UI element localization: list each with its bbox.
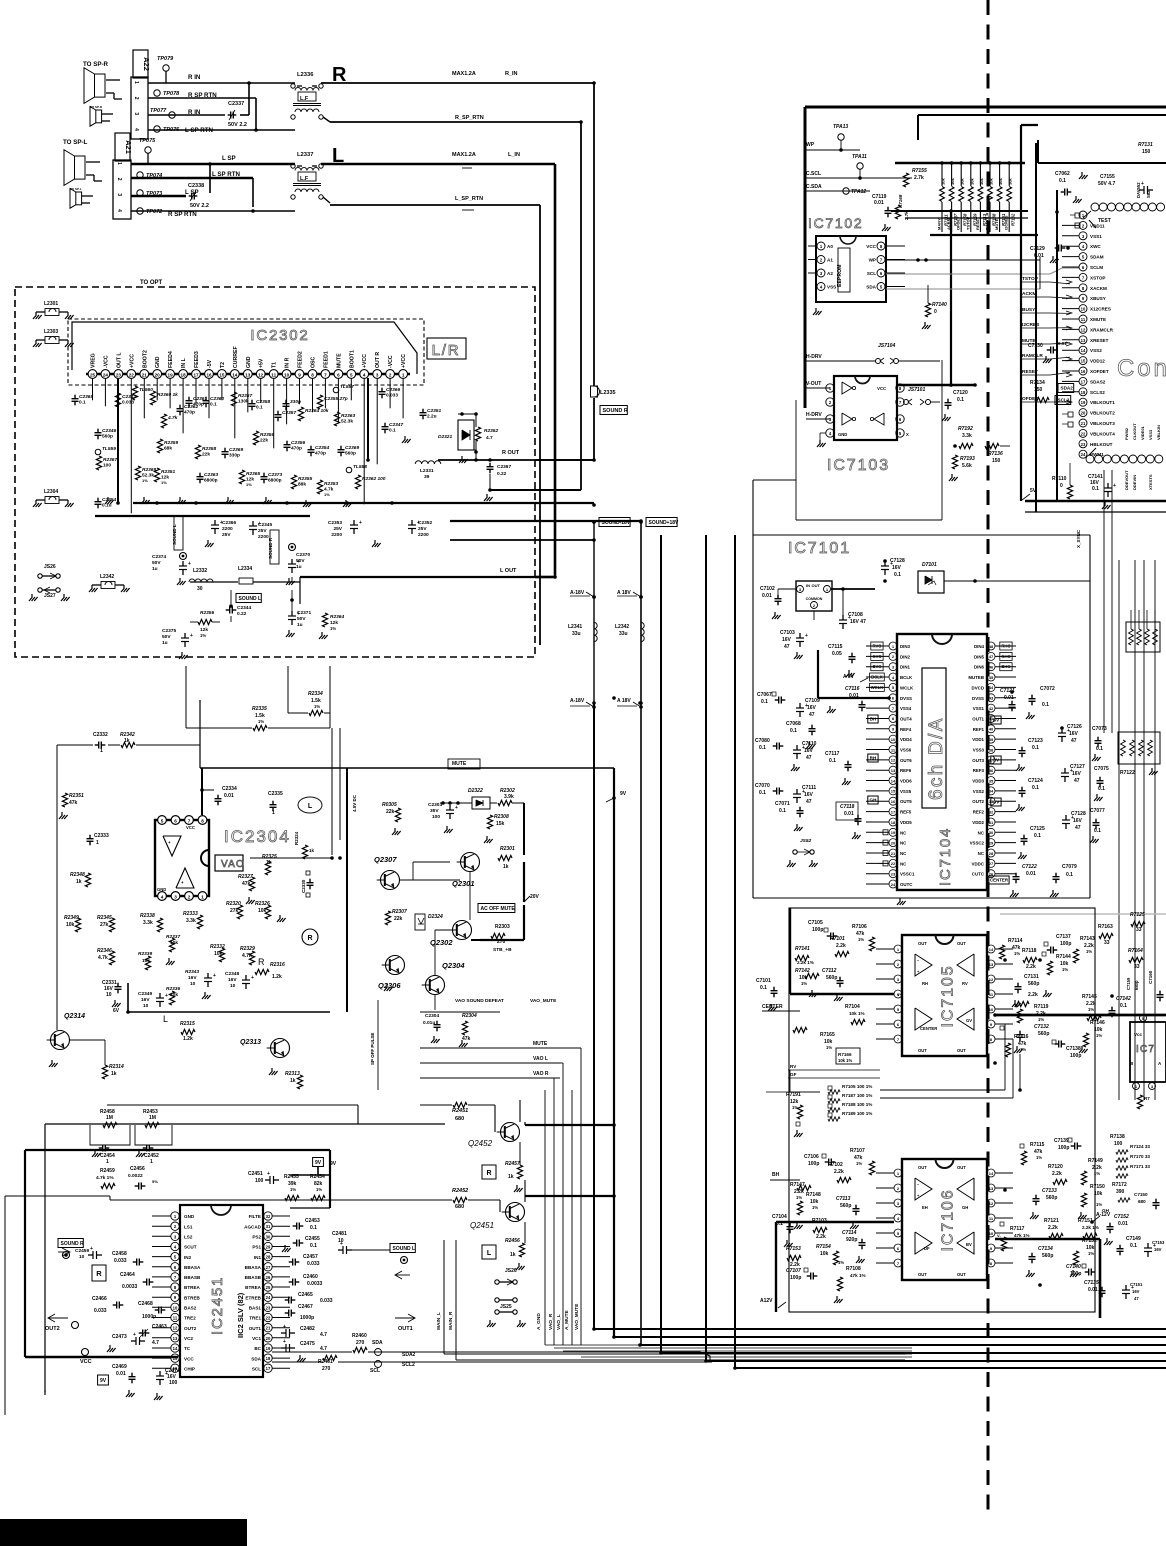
svg-text:12: 12: [1081, 327, 1086, 332]
svg-text:I2CRES: I2CRES: [1022, 322, 1040, 328]
wire left edge: [5, 1196, 110, 1415]
svg-text:BBASB: BBASB: [184, 1275, 201, 1280]
svg-text:150: 150: [1142, 149, 1151, 155]
svg-text:ETREB: ETREB: [245, 1295, 261, 1300]
resistor R7163: [1098, 924, 1113, 946]
svg-text:GND: GND: [184, 1214, 195, 1219]
svg-text:R2353: R2353: [324, 481, 338, 487]
svg-text:R2304: R2304: [462, 1013, 477, 1019]
connector A21: [113, 133, 133, 219]
electrolytic C2353: [328, 520, 381, 547]
wire rails right top: [1025, 501, 1166, 512]
svg-text:OSC: OSC: [311, 357, 317, 368]
svg-text:OUT6: OUT6: [900, 758, 912, 763]
svg-text:30: 30: [266, 1234, 271, 1239]
capacitor C2463: [139, 1324, 167, 1337]
svg-text:100p: 100p: [1070, 1271, 1081, 1277]
capacitor C7068: [786, 721, 816, 749]
svg-text:560p: 560p: [345, 451, 356, 457]
svg-text:C2348: C2348: [225, 971, 239, 977]
wire bold vert A: [1021, 125, 1038, 501]
svg-text:DF: DF: [924, 1246, 930, 1251]
svg-text:SOUND L: SOUND L: [393, 1246, 416, 1252]
svg-text:0.01: 0.01: [849, 693, 859, 699]
svg-text:43: 43: [989, 696, 994, 701]
svg-text:I2CRES: I2CRES: [1004, 215, 1009, 230]
resistor R2352: [474, 414, 498, 462]
svg-text:26: 26: [266, 1275, 271, 1280]
svg-text:SOUND+18V: SOUND+18V: [649, 520, 680, 526]
ground g4: [225, 497, 234, 504]
svg-text:0.1: 0.1: [760, 985, 767, 991]
resistor R7143: [1073, 936, 1095, 963]
svg-text:9: 9: [298, 372, 301, 377]
svg-text:21: 21: [891, 851, 896, 856]
svg-text:IIC2 SLV (82): IIC2 SLV (82): [236, 1292, 245, 1338]
svg-text:L2331: L2331: [420, 468, 434, 474]
node SOUND+18V: [639, 518, 679, 527]
electrolytic C2345: [249, 521, 272, 540]
svg-text:0.1: 0.1: [79, 400, 86, 406]
wire V+ feed IC7105: [790, 908, 903, 997]
svg-text:47: 47: [1071, 738, 1077, 744]
svg-text:1%: 1%: [1086, 949, 1092, 954]
svg-text:C7073: C7073: [1092, 726, 1107, 732]
svg-text:MUTEB: MUTEB: [968, 675, 984, 680]
label C.SDA: [806, 184, 870, 191]
svg-text:C2355 27p: C2355 27p: [324, 396, 348, 402]
svg-text:4.7k 1%: 4.7k 1%: [96, 1175, 114, 1181]
svg-text:1k: 1k: [76, 879, 82, 885]
resistor R7103: [812, 1218, 827, 1240]
svg-text:21: 21: [1081, 421, 1086, 426]
svg-text:C7117: C7117: [825, 751, 840, 757]
capacitor C2303: [428, 802, 458, 833]
svg-text:TRE1: TRE1: [249, 1316, 261, 1321]
svg-text:0.1: 0.1: [1098, 786, 1105, 792]
svg-text:VSS2: VSS2: [973, 789, 985, 794]
label H-DRV: [806, 354, 876, 361]
svg-text:C2457: C2457: [303, 1254, 318, 1260]
svg-text:0.1: 0.1: [894, 572, 901, 578]
svg-text:6: 6: [337, 372, 340, 377]
svg-text:R7115: R7115: [1030, 1142, 1045, 1148]
svg-text:OUT: OUT: [918, 1048, 927, 1053]
svg-text:XOFDET: XOFDET: [1090, 369, 1109, 374]
svg-text:560p: 560p: [840, 1203, 851, 1209]
svg-text:BTREB: BTREB: [184, 1295, 201, 1300]
svg-text:C.SCL: C.SCL: [806, 171, 821, 177]
svg-text:22: 22: [1081, 431, 1086, 436]
svg-text:15k: 15k: [496, 821, 505, 827]
wire ic2304 top net: [57, 745, 200, 1030]
svg-text:DIN6: DIN6: [974, 665, 985, 670]
ground g9: [459, 456, 468, 463]
svg-text:0.1: 0.1: [759, 790, 766, 796]
svg-text:680: 680: [455, 1116, 464, 1122]
vertical label MAIN_L: [436, 1312, 442, 1330]
label L SP 2: [185, 189, 199, 196]
svg-text:+: +: [297, 559, 300, 565]
jumper JS26 b: [495, 1268, 517, 1285]
svg-text:R IN: R IN: [188, 74, 201, 81]
svg-text:VBLKOUT3: VBLKOUT3: [1090, 421, 1115, 426]
svg-text:0.033: 0.033: [122, 400, 134, 406]
svg-text:0.01: 0.01: [1026, 871, 1036, 877]
capacitor C2347: [382, 422, 404, 434]
capacitor C7155c: [1098, 174, 1153, 194]
ground g6: [303, 500, 312, 507]
svg-text:Q2306: Q2306: [378, 981, 401, 990]
capacitor C2358: [249, 399, 271, 411]
inductor L2341: [568, 622, 597, 641]
svg-text:C7067: C7067: [757, 692, 772, 698]
svg-text:MUTE: MUTE: [336, 353, 342, 368]
transistor Q2313: [240, 1039, 290, 1076]
svg-text:10k: 10k: [1008, 178, 1013, 185]
svg-text:NC: NC: [978, 830, 985, 835]
svg-text:14: 14: [891, 778, 896, 783]
wire 9v drop: [290, 1167, 330, 1175]
wire q2304 down: [420, 995, 500, 1012]
svg-text:18: 18: [891, 820, 896, 825]
svg-text:2.2k 1%: 2.2k 1%: [1082, 1225, 1099, 1230]
resistor R2351: [154, 468, 175, 485]
svg-text:SOUND R: SOUND R: [603, 408, 628, 414]
svg-text:1k: 1k: [309, 848, 315, 853]
svg-text:8: 8: [311, 372, 314, 377]
resistor R2453: [135, 1109, 172, 1145]
op-amp IC7104: [879, 634, 995, 890]
svg-text:39: 39: [989, 737, 994, 742]
svg-text:470p: 470p: [291, 446, 302, 452]
capacitor C7120: [942, 390, 968, 421]
capacitor C7123: [1016, 738, 1043, 771]
svg-text:9V: 9V: [330, 1161, 337, 1167]
svg-text:1%: 1%: [258, 719, 264, 724]
capacitor C7073: [1092, 726, 1107, 761]
svg-text:BCLK: BCLK: [871, 675, 883, 680]
svg-text:40: 40: [989, 727, 994, 732]
resistor R2315: [180, 1021, 195, 1042]
resistor R2301: [498, 846, 515, 870]
wire main vert: [444, 1240, 905, 1360]
wires IC7104 stubs: [866, 646, 1016, 884]
capacitor C2334: [215, 786, 237, 805]
svg-text:10k: 10k: [820, 1251, 829, 1257]
svg-text:SOUND-18V: SOUND-18V: [602, 520, 631, 526]
svg-text:RESET: RESET: [975, 216, 980, 230]
svg-text:27k: 27k: [100, 922, 109, 928]
capacitor C2473: [107, 1332, 159, 1352]
svg-text:H-DRV: H-DRV: [806, 412, 822, 418]
label C.SCL: [806, 171, 912, 178]
svg-text:23: 23: [266, 1305, 271, 1310]
svg-text:TO SP-L: TO SP-L: [63, 139, 88, 146]
svg-text:C7103: C7103: [780, 630, 795, 636]
svg-text:IN1: IN1: [254, 1255, 262, 1260]
svg-text:4: 4: [133, 128, 139, 131]
svg-text:D2322: D2322: [468, 788, 483, 794]
svg-text:R2334: R2334: [308, 691, 323, 697]
svg-text:0.1: 0.1: [790, 728, 797, 734]
svg-text:29: 29: [266, 1245, 271, 1250]
svg-text:C7113: C7113: [836, 1196, 851, 1202]
resistor 4.7k: [161, 414, 177, 428]
svg-text:C7150: C7150: [1134, 1192, 1148, 1197]
label OUT1: [395, 1314, 415, 1332]
resistor R2451: [452, 1102, 468, 1122]
svg-text:VDD3: VDD3: [972, 779, 984, 784]
svg-text:16V: 16V: [1073, 818, 1083, 824]
svg-text:C7114: C7114: [842, 1230, 857, 1236]
svg-text:L2303: L2303: [44, 329, 58, 335]
resistor R7108: [834, 1266, 866, 1303]
svg-text:R: R: [486, 1170, 491, 1177]
resistor R7101: [830, 936, 849, 957]
svg-text:C7120: C7120: [953, 390, 968, 396]
capacitor C7138: [1052, 1040, 1088, 1059]
svg-text:10k: 10k: [170, 940, 178, 946]
svg-text:10k: 10k: [979, 178, 984, 185]
svg-text:25: 25: [266, 1285, 271, 1290]
svg-text:47k: 47k: [69, 800, 78, 806]
capacitor C7141: [1088, 474, 1116, 509]
svg-text:12: 12: [173, 1326, 178, 1331]
label L SP RTN2: [212, 171, 240, 178]
svg-text:3.3k: 3.3k: [962, 433, 972, 439]
svg-text:1%: 1%: [856, 1161, 862, 1166]
svg-text:C2466: C2466: [92, 1296, 107, 1302]
wire pin3: [148, 114, 225, 116]
svg-text:CUTC: CUTC: [972, 872, 985, 877]
svg-text:3: 3: [376, 372, 379, 377]
inductor L2302: [89, 574, 130, 592]
electrolytic C7103: [780, 611, 814, 659]
resistor TL560: [132, 386, 153, 400]
text 6ch D/A: [922, 668, 947, 808]
svg-text:PS2: PS2: [252, 1235, 261, 1240]
svg-text:REF3: REF3: [973, 768, 985, 773]
label conv xsymbols: [1062, 412, 1073, 427]
svg-text:3: 3: [133, 112, 139, 115]
wire frame bottom left: [25, 1105, 445, 1392]
svg-text:JS26: JS26: [505, 1268, 517, 1274]
svg-text:47k: 47k: [242, 881, 251, 887]
svg-text:R7143: R7143: [1080, 936, 1095, 942]
svg-text:10k: 10k: [258, 908, 267, 914]
capacitor C2330: [301, 871, 314, 897]
svg-text:1%: 1%: [796, 1195, 802, 1200]
svg-text:CURREF: CURREF: [233, 346, 239, 368]
svg-text:19: 19: [266, 1346, 271, 1351]
svg-text:22k: 22k: [386, 809, 395, 815]
label 5V r: [1022, 488, 1037, 500]
capacitor C2344: [226, 604, 252, 617]
svg-text:A_MUTE: A_MUTE: [564, 1309, 570, 1330]
svg-text:1%: 1%: [1096, 1033, 1102, 1038]
svg-text:A-18V: A-18V: [570, 698, 585, 704]
label L small: [163, 1014, 168, 1024]
svg-text:WCLK: WCLK: [871, 685, 884, 690]
svg-text:88k: 88k: [298, 482, 306, 488]
svg-text:R7121: R7121: [1044, 1218, 1059, 1224]
resistor R7147: [790, 1182, 811, 1200]
wire pin4: [148, 128, 295, 132]
svg-text:L2342: L2342: [615, 624, 629, 630]
resistor R2459: [96, 1168, 115, 1189]
label 6V: [113, 1008, 130, 1014]
svg-text:SOUND R: SOUND R: [61, 1241, 84, 1247]
svg-text:16V: 16V: [1069, 731, 1079, 737]
svg-text:L: L: [487, 1250, 492, 1257]
svg-text:TO SP-L: TO SP-L: [70, 187, 82, 191]
svg-text:28: 28: [989, 851, 994, 856]
svg-text:DIN2: DIN2: [900, 654, 911, 659]
ground eeprom: [813, 308, 822, 315]
svg-text:H-DRV: H-DRV: [806, 354, 822, 360]
svg-text:C2303: C2303: [428, 802, 442, 808]
wire R SP RTN pin2: [148, 98, 256, 130]
labels RHO GHO: [1000, 642, 1012, 671]
capacitor C2332: [93, 732, 108, 754]
svg-text:4.7: 4.7: [486, 435, 493, 441]
svg-text:2.2k 1%: 2.2k 1%: [797, 960, 814, 965]
svg-text:14: 14: [989, 1171, 994, 1176]
node SOUND-18V: [592, 518, 631, 527]
svg-text:BAS2: BAS2: [184, 1306, 197, 1311]
svg-text:R2356: R2356: [260, 432, 274, 438]
svg-text:L: L: [308, 803, 313, 810]
svg-text:C7077: C7077: [1090, 808, 1105, 814]
svg-text:4.7k: 4.7k: [98, 955, 108, 961]
svg-text:C7151: C7151: [1130, 1282, 1143, 1287]
svg-text:47: 47: [784, 644, 790, 650]
boxed label CENTER 2: [989, 876, 1009, 884]
svg-text:XRESET: XRESET: [1090, 338, 1109, 343]
svg-text:GH: GH: [870, 798, 878, 803]
wire R vertical joins: [240, 83, 249, 115]
svg-text:C2455: C2455: [305, 1236, 320, 1242]
svg-text:2: 2: [389, 372, 392, 377]
resistor R7106a: [852, 924, 875, 951]
svg-text:R2348: R2348: [70, 872, 85, 878]
svg-text:0.1: 0.1: [829, 758, 836, 764]
wire V- rail IC7106: [995, 1233, 1100, 1318]
vertical text X_SYNC: [1076, 529, 1081, 548]
svg-text:1%: 1%: [1062, 967, 1068, 972]
wires vao verts: [545, 1048, 912, 1357]
wire A+18V vertical right: [640, 522, 642, 1345]
testpoint TL557: [333, 384, 354, 393]
svg-text:22k: 22k: [260, 438, 268, 444]
svg-text:LS1: LS1: [184, 1224, 193, 1229]
resistor R2356: [253, 431, 274, 445]
testpoint TP074: [137, 172, 162, 179]
svg-text:15: 15: [219, 372, 225, 377]
svg-text:12: 12: [989, 977, 994, 982]
svg-text:R2337: R2337: [166, 934, 180, 940]
svg-text:1%: 1%: [858, 937, 864, 942]
svg-text:34: 34: [989, 789, 994, 794]
svg-text:SCL2: SCL2: [1058, 398, 1070, 403]
testpoint TPA12: [843, 188, 867, 195]
svg-text:47k 1%: 47k 1%: [850, 1273, 866, 1278]
svg-text:OUT1: OUT1: [398, 1326, 413, 1332]
svg-text:R: R: [258, 957, 265, 967]
svg-text:R2303: R2303: [495, 924, 510, 930]
svg-text:R2301: R2301: [500, 846, 515, 852]
svg-text:R: R: [307, 935, 312, 942]
svg-text:L_IN: L_IN: [508, 152, 520, 158]
svg-text:C2371: C2371: [297, 610, 311, 616]
svg-text:TO OPT: TO OPT: [140, 280, 163, 286]
svg-text:OUT3: OUT3: [972, 758, 984, 763]
wire vaoR: [420, 1077, 560, 1079]
svg-text:16V: 16V: [1154, 1247, 1162, 1252]
svg-text:10: 10: [891, 737, 896, 742]
svg-text:11: 11: [271, 372, 276, 377]
svg-text:AGCAD: AGCAD: [244, 1224, 262, 1229]
svg-text:L2342: L2342: [100, 574, 114, 580]
resistor R2316: [255, 962, 285, 980]
electrolytic C2366: [205, 520, 236, 547]
arrow left: [395, 1271, 410, 1279]
resistor R2320: [226, 901, 243, 919]
svg-text:R2308: R2308: [494, 814, 509, 820]
testpoint TP072: [137, 208, 162, 215]
svg-text:20V: 20V: [530, 894, 540, 900]
svg-text:L2335: L2335: [600, 390, 616, 396]
svg-text:2.2k: 2.2k: [816, 1234, 826, 1240]
svg-text:12: 12: [989, 1201, 994, 1206]
svg-text:TPA11: TPA11: [852, 154, 867, 160]
capacitor C7150: [1134, 1192, 1160, 1209]
svg-text:16: 16: [206, 372, 212, 377]
capacitor C2466: [92, 1296, 123, 1314]
svg-text:R7104: R7104: [845, 1004, 860, 1010]
wire bold vert B: [1035, 143, 1037, 512]
svg-text:10k: 10k: [969, 178, 974, 185]
labels RV GF: [788, 1064, 880, 1078]
svg-text:DIN3: DIN3: [900, 644, 911, 649]
capacitor C7079: [1050, 864, 1077, 897]
svg-text:WCLK: WCLK: [900, 685, 914, 690]
svg-text:R7106: R7106: [852, 924, 867, 930]
svg-text:SCLM: SCLM: [1090, 265, 1103, 270]
svg-text:C2335: C2335: [268, 791, 283, 797]
svg-text:MAX1.2A: MAX1.2A: [452, 71, 476, 77]
svg-text:560p: 560p: [1038, 1031, 1049, 1037]
svg-text:47k: 47k: [462, 1036, 471, 1042]
jumper JS7104: [876, 343, 941, 364]
svg-text:0.01u: 0.01u: [423, 1020, 435, 1026]
svg-text:R7153: R7153: [786, 1246, 801, 1252]
svg-text:IN R: IN R: [285, 357, 291, 368]
svg-text:C7116: C7116: [845, 686, 860, 692]
svg-text:+: +: [168, 840, 171, 845]
svg-text:14: 14: [1081, 348, 1086, 353]
svg-text:SP OFF PULSE: SP OFF PULSE: [370, 1033, 375, 1065]
svg-text:D7101: D7101: [922, 562, 937, 568]
boxed label AC OFF MUTE: [478, 904, 515, 913]
resistor R2324: [294, 831, 315, 859]
svg-text:VAO_MUTE: VAO_MUTE: [574, 1303, 580, 1330]
svg-text:17: 17: [193, 372, 199, 377]
svg-text:2: 2: [116, 178, 122, 181]
resistor R2454: [310, 1174, 325, 1201]
label CENTER w: [762, 1004, 800, 1011]
